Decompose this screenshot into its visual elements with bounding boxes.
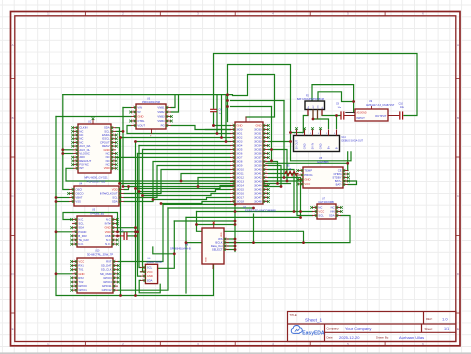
svg-text:20: 20 [232,200,234,202]
svg-text:TEMP: TEMP [304,168,312,172]
svg-text:8: 8 [265,152,266,154]
wire stair row16 [139,190,231,192]
svg-text:SDA: SDA [78,226,84,230]
svg-text:1: 1 [121,188,122,190]
wire vert x271 [271,107,273,161]
svg-text:3IO35: 3IO35 [254,147,262,151]
svg-text:6: 6 [232,144,233,146]
junction [138,190,141,193]
svg-text:4: 4 [168,120,169,122]
svg-text:8: 8 [75,152,76,154]
svg-text:14: 14 [265,176,267,178]
svg-text:Your Company: Your Company [345,326,371,331]
svg-text:GND: GND [78,272,84,276]
svg-text:U10: U10 [95,250,100,253]
svg-text:1: 1 [113,126,114,128]
svg-text:1: 1 [345,169,346,171]
junction [55,200,58,203]
svg-text:4: 4 [74,272,75,274]
svg-text:3IO12: 3IO12 [236,175,244,179]
svg-text:3IO37: 3IO37 [254,155,262,159]
svg-text:5V: 5V [137,110,141,114]
svg-text:6: 6 [114,239,115,241]
wire riser x300 to H217 [268,178,301,218]
svg-text:TE_CAV: TE_CAV [78,238,89,242]
svg-text:7: 7 [114,243,115,245]
svg-text:3D-68CTRL_35W_TP: 3D-68CTRL_35W_TP [87,253,113,257]
svg-text:B: B [457,116,459,120]
svg-text:3IO3: 3IO3 [236,139,242,143]
wire row13 drop [198,178,231,187]
svg-text:16: 16 [265,184,267,186]
svg-text:2: 2 [74,222,75,224]
svg-text:VLOGIC: VLOGIC [79,151,89,155]
svg-text:STDBY: STDBY [332,175,341,179]
svg-text:B+: B+ [327,146,331,150]
svg-text:SDA: SDA [104,126,110,130]
svg-text:C10: C10 [399,103,404,106]
junction [289,140,292,143]
svg-text:AUX_CL: AUX_CL [79,148,90,152]
svg-text:PGND: PGND [78,230,86,234]
svg-text:17: 17 [232,188,234,190]
svg-text:VDD: VDD [221,232,223,237]
junction [346,162,349,165]
svg-text:DEBUG 5V/2A-OUT: DEBUG 5V/2A-OUT [342,139,364,142]
svg-text:GPIO0: GPIO0 [78,284,87,288]
wire U4 CLKOUT to U1 [124,170,231,194]
svg-text:5: 5 [113,141,114,143]
junction [293,210,296,213]
svg-text:REV:: REV: [426,317,433,321]
junction [234,245,237,248]
svg-text:VCC: VCC [318,209,324,213]
junction [122,130,125,133]
junction [299,210,302,213]
wire riser U10 row to H204 [118,204,163,261]
svg-text:Drawn By:: Drawn By: [376,335,389,339]
junction [136,230,139,233]
wire U9 OUT to C10 [388,115,399,117]
svg-text:3: 3 [142,275,143,277]
svg-text:4: 4 [115,272,116,274]
svg-text:12: 12 [113,167,115,169]
svg-text:5V IN: 5V IN [311,143,315,150]
svg-text:1: 1 [115,260,116,262]
wire stair row17 [143,194,231,196]
svg-text:9: 9 [265,156,266,158]
svg-text:3IO15: 3IO15 [236,187,244,191]
IC U7 SHT20 [310,204,343,219]
svg-text:2: 2 [71,192,72,194]
wire vert x137 to U6 GND [138,154,141,277]
svg-text:10: 10 [113,160,115,162]
svg-text:2: 2 [300,174,301,176]
junction [118,182,121,185]
wire U9 input black seg [346,112,357,114]
svg-text:3: 3 [168,115,169,117]
svg-text:6: 6 [74,281,75,283]
wire ladder v217 [216,95,218,134]
svg-text:BAT-: BAT- [336,182,342,186]
IC U8 SPH0645 mic [202,228,229,269]
wire U2 GND row to U1 [116,156,231,158]
junction [134,235,137,238]
svg-text:18: 18 [232,192,234,194]
junction [212,124,215,127]
svg-text:MPU-6050_GY-521: MPU-6050_GY-521 [84,176,108,180]
svg-text:8: 8 [232,152,233,154]
svg-text:AUX_DA: AUX_DA [79,144,90,148]
svg-text:CHRG: CHRG [333,172,341,176]
svg-text:4: 4 [75,137,76,139]
svg-text:4: 4 [133,120,134,122]
svg-text:EA20B66: EA20B66 [317,160,329,164]
svg-text:SDA: SDA [112,199,118,203]
svg-text:5: 5 [345,183,346,185]
svg-text:3: 3 [345,176,346,178]
svg-text:6: 6 [115,281,116,283]
svg-text:ESP32-3D-UMCOM(M8): ESP32-3D-UMCOM(M8) [245,209,276,213]
svg-text:18: 18 [265,192,267,194]
wire bottom ground bus [56,117,214,296]
junction [234,203,237,206]
wire H231 loop [197,212,304,243]
wire U8 top stub [213,224,215,229]
svg-text:GND: GND [255,123,261,127]
junction [55,230,58,233]
wire riser to H181 [268,150,287,182]
junction [234,220,237,223]
junction [116,230,119,233]
svg-text:2: 2 [75,130,76,132]
wire vert x284 to R5 [283,101,285,178]
svg-text:3: 3 [113,134,114,136]
svg-text:1: 1 [74,218,75,220]
wire vert x120 [120,138,122,296]
wire stair row19 [161,202,231,204]
svg-text:1: 1 [74,260,75,262]
svg-text:5: 5 [133,124,134,126]
svg-text:3IO44: 3IO44 [254,183,262,187]
svg-text:1: 1 [142,266,143,268]
svg-text:2: 2 [133,111,134,113]
svg-text:Company:: Company: [327,327,340,331]
svg-text:9: 9 [113,156,114,158]
svg-text:3IO14: 3IO14 [236,183,244,187]
svg-text:OSCI: OSCI [75,187,82,191]
svg-text:BAT+: BAT+ [335,179,342,183]
svg-text:GPIO4: GPIO4 [103,280,112,284]
svg-text:3: 3 [300,178,301,180]
wire P1 pin1 down [291,116,309,133]
svg-text:TITLE:: TITLE: [290,313,298,317]
junction [116,235,119,238]
svg-text:3IO34: 3IO34 [254,143,262,147]
svg-text:3IO4: 3IO4 [236,143,242,147]
svg-text:NC: NC [79,137,83,141]
svg-text:12: 12 [265,168,267,170]
svg-text:3IO7: 3IO7 [236,155,242,159]
wire stub U2 AUX_CL [63,149,73,151]
svg-text:VCC: VCC [147,270,153,274]
title block [288,312,457,342]
svg-text:3IO38: 3IO38 [254,159,262,163]
svg-text:NC: NC [318,205,322,209]
svg-text:5: 5 [114,235,115,237]
wire bus row5 [136,141,231,143]
IC U3 PMIC [129,104,173,134]
junction [234,210,237,213]
svg-text:CTRL: CTRL [137,119,145,123]
svg-text:2: 2 [142,270,143,272]
wire vert x253 [253,214,255,243]
wire stub U2 VLOGIC [63,153,73,155]
wire H208 [168,207,254,209]
svg-text:N.C.: N.C. [78,217,84,221]
EasyEDA logo [291,325,325,336]
svg-text:11: 11 [75,163,77,165]
junction [61,152,64,155]
wire U8 BCLK stub [228,242,236,244]
svg-text:2: 2 [168,111,169,113]
wire U3 VIN stub [123,107,131,109]
svg-text:3IO9: 3IO9 [236,163,242,167]
IC U5 fuel gauge [70,216,119,247]
wire charger USB row right [117,231,138,233]
wire U3 VOUT to U1 [127,126,231,134]
wire H100 [231,100,285,102]
svg-text:3IO13: 3IO13 [236,179,244,183]
wire H186 riser to U1 right [268,166,281,187]
svg-text:2025-12-20: 2025-12-20 [339,335,360,340]
wire vert x135 to bottom bus [135,142,137,296]
svg-text:2: 2 [265,128,266,130]
svg-text:N.C.: N.C. [78,242,84,246]
svg-text:ADJ/GND: ADJ/GND [357,111,367,114]
capacitor C2 [341,111,344,119]
wire U3 PG to U1 [171,126,231,130]
svg-text:2: 2 [113,130,114,132]
svg-text:3IO10: 3IO10 [236,167,244,171]
wire H211 to U7 VCC [197,211,313,213]
svg-text:7: 7 [74,285,75,287]
IC U4 PCF8563T [67,186,124,206]
junction [55,196,58,199]
wire C6 to U1 pin [214,113,231,126]
svg-text:AMS1117-3.3_C61871ST: AMS1117-3.3_C61871ST [366,104,395,107]
svg-text:5: 5 [75,141,76,143]
svg-text:3IO46: 3IO46 [254,191,262,195]
svg-text:1: 1 [314,206,315,208]
svg-text:3: 3 [314,214,315,216]
wire H164 [266,162,348,164]
svg-text:6: 6 [74,239,75,241]
wire stair row18 [153,198,231,200]
resistor R7 10k [284,171,299,175]
svg-text:B-: B- [322,106,324,108]
junction [312,118,315,121]
junction [122,185,125,188]
junction [134,230,137,233]
wire stub U4 VSS [56,201,69,203]
svg-text:RX1: RX1 [78,264,84,268]
junction [226,93,229,96]
junction [61,148,64,151]
svg-text:Sheet_1: Sheet_1 [305,318,323,323]
wire U2 SDA long H183 [116,128,291,184]
svg-text:7: 7 [115,285,116,287]
svg-text:CHT20C6MB: CHT20C6MB [318,200,334,204]
svg-text:3: 3 [133,115,134,117]
junction [134,187,137,190]
svg-text:VCC: VCC [78,259,84,263]
svg-text:4: 4 [114,230,115,232]
IC U5 charger EA20B66 [296,167,350,188]
svg-text:2: 2 [115,264,116,266]
svg-text:1: 1 [114,218,115,220]
svg-text:SCL: SCL [147,265,153,269]
junction [185,241,188,244]
svg-text:3IO45: 3IO45 [254,187,262,191]
wire long H181 to U5 BAT [66,168,357,184]
svg-text:N.C: N.C [106,238,111,242]
svg-text:3IO43: 3IO43 [254,179,262,183]
wire charger wrap [63,213,118,232]
svg-text:3IO18: 3IO18 [236,199,244,203]
svg-text:3: 3 [74,226,75,228]
svg-text:GND: GND [303,143,307,149]
wire ladder v221 [221,95,223,138]
canvas bottom edge [0,352,471,354]
svg-text:SD_CLK: SD_CLK [101,268,112,272]
svg-text:B_PAV: B_PAV [78,234,87,238]
wire U6 SDA bottom wrap [139,280,160,292]
svg-text:6: 6 [113,145,114,147]
svg-text:13: 13 [265,172,267,174]
svg-text:3: 3 [121,196,122,198]
svg-text:1/1: 1/1 [444,327,449,331]
wire U2 SCL stub [116,130,123,132]
svg-text:8: 8 [113,152,114,154]
svg-text:AD0: AD0 [79,155,85,159]
svg-text:SD_CMD: SD_CMD [100,272,112,276]
svg-text:NC: NC [79,133,83,137]
svg-text:GPIO11: GPIO11 [102,284,112,288]
svg-text:SELECT: SELECT [212,247,223,251]
svg-text:TX1: TX1 [78,268,84,272]
svg-text:NC: NC [106,159,110,163]
wire U3 VNB2 up [171,95,179,112]
svg-text:3: 3 [232,132,233,134]
svg-text:3: 3 [71,196,72,198]
svg-text:6: 6 [265,144,266,146]
junction [216,132,219,135]
svg-text:3IO40: 3IO40 [254,167,262,171]
svg-text:2: 2 [226,241,227,243]
wire stub charger PGND [56,231,72,233]
wire C4 right [128,235,136,237]
svg-text:3IO33: 3IO33 [254,139,262,143]
svg-text:12: 12 [232,168,234,170]
svg-text:1: 1 [300,169,301,171]
svg-text:VSS: VSS [75,199,81,203]
wire P2 to U5 CE [347,152,349,171]
svg-text:GPIO1: GPIO1 [78,288,87,292]
svg-text:GND: GND [104,226,110,230]
svg-text:INT#: INT# [105,222,111,226]
svg-text:10: 10 [265,160,267,162]
svg-text:INT: INT [79,166,84,170]
svg-text:SCL: SCL [78,222,84,226]
capacitor C10 [400,111,403,119]
svg-text:BAT 3.6V/UPS/PC6 BCM: BAT 3.6V/UPS/PC6 BCM [297,98,324,101]
svg-text:11: 11 [232,164,234,166]
svg-text:NC: NC [79,129,83,133]
junction [302,241,305,244]
svg-text:1K: 1K [289,169,292,171]
svg-text:4: 4 [74,230,75,232]
svg-text:15: 15 [265,180,267,182]
svg-text:RESV: RESV [102,144,110,148]
svg-text:QMALTT00 ET: QMALTT00 ET [147,261,163,264]
junction [234,248,237,251]
junction [270,148,273,151]
wire H106 [231,106,272,108]
svg-text:13: 13 [232,172,234,174]
junction [127,185,130,188]
junction [286,180,289,183]
svg-text:INT#/CLKOUT: INT#/CLKOUT [100,191,118,195]
svg-text:BCLK: BCLK [215,240,222,244]
wire U4 VDD to H186 [124,187,129,190]
svg-text:19: 19 [265,196,267,198]
svg-text:PG: PG [161,123,165,127]
junction [119,294,122,297]
svg-text:2: 2 [232,128,233,130]
svg-text:GND: GND [236,123,242,127]
svg-text:10: 10 [75,160,77,162]
junction [335,114,338,117]
svg-text:3: 3 [74,268,75,270]
svg-text:9: 9 [232,156,233,158]
wire riser U10 row to H208 [118,208,168,290]
svg-text:4: 4 [300,183,301,185]
svg-text:3IO36: 3IO36 [254,151,262,155]
wire H224 [197,224,236,226]
svg-text:NC: NC [106,155,110,159]
svg-text:3IO31: 3IO31 [254,131,262,135]
svg-text:5V OUT: 5V OUT [295,140,299,150]
svg-text:3IO47: 3IO47 [254,195,262,199]
svg-text:3IO6: 3IO6 [236,151,242,155]
svg-text:B: B [12,116,14,120]
junction [289,131,292,134]
svg-text:1: 1 [133,106,134,108]
svg-text:7: 7 [232,148,233,150]
svg-text:4: 4 [113,137,114,139]
svg-text:GND: GND [206,257,208,262]
wire row2 short [205,129,230,131]
wire net3V3 top loop [214,54,418,116]
junction [134,294,137,297]
svg-text:U2: U2 [88,119,92,123]
svg-text:1: 1 [168,106,169,108]
svg-text:7: 7 [74,243,75,245]
svg-text:3IO8: 3IO8 [236,159,242,163]
svg-text:3IO2: 3IO2 [236,135,242,139]
svg-text:14: 14 [232,176,234,178]
